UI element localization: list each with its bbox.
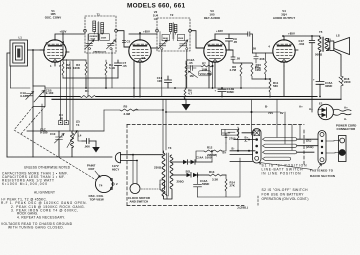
wire T2 to V3 grid xyxy=(191,31,204,48)
svg-text:+85V: +85V xyxy=(143,29,150,33)
resistor R1 xyxy=(80,96,96,98)
svg-text:T2: T2 xyxy=(170,13,174,17)
resistor R5 xyxy=(120,109,138,111)
svg-text:T4: T4 xyxy=(76,123,80,127)
T2 trimmer 1 xyxy=(158,40,167,49)
wires blades to strip B xyxy=(297,139,318,152)
wire det bus xyxy=(241,63,284,97)
svg-text:A+: A+ xyxy=(309,107,313,111)
svg-text:SEL.: SEL. xyxy=(186,170,193,174)
svg-text:DET-AUDIO: DET-AUDIO xyxy=(204,16,221,20)
svg-text:C5: C5 xyxy=(127,40,131,44)
tube V1 xyxy=(40,40,69,68)
antenna loop L1 xyxy=(10,36,28,67)
svg-text:3.3M: 3.3M xyxy=(124,112,131,116)
svg-text:IN LINE POSITION: IN LINE POSITION xyxy=(262,172,302,176)
dial T4 xyxy=(89,175,119,201)
alignment block xyxy=(1,190,87,229)
svg-text:VOLUME: VOLUME xyxy=(200,72,213,76)
svg-text:50MF: 50MF xyxy=(202,182,210,186)
wire osc vertical xyxy=(32,50,34,157)
resistor R6 xyxy=(184,88,192,99)
svg-text:K•1000 M•1,000,000: K•1000 M•1,000,000 xyxy=(2,182,47,186)
wire A- drop xyxy=(251,100,253,135)
svg-text:A-: A- xyxy=(344,117,347,121)
speaker LS xyxy=(328,34,350,77)
dashed clock section border left xyxy=(126,125,128,206)
dashed clock section border bottom xyxy=(127,205,244,207)
label V3 DET-AUDIO xyxy=(204,9,221,20)
connector strip A xyxy=(253,129,262,164)
wire screen bus xyxy=(63,33,118,88)
svg-text:R7: R7 xyxy=(202,62,206,66)
junction dots xyxy=(139,32,141,34)
svg-text:230Ω: 230Ω xyxy=(154,166,162,170)
svg-text:5.1K: 5.1K xyxy=(109,66,116,70)
svg-text:+85V: +85V xyxy=(288,32,295,36)
capacitor C17 xyxy=(299,36,315,46)
svg-text:C14A: C14A xyxy=(196,156,203,160)
resistor R17a xyxy=(237,127,239,151)
clock motor xyxy=(128,155,150,204)
capacitor C11 xyxy=(157,76,172,88)
tuning capacitor C1B xyxy=(33,86,54,134)
wire loop to V1 xyxy=(28,49,45,51)
svg-text:GREEN DOT: GREEN DOT xyxy=(93,52,107,54)
T1 label box GREEN xyxy=(89,34,99,41)
svg-text:+: + xyxy=(313,78,315,82)
capacitor C14 coupling xyxy=(248,32,253,53)
thermistor box xyxy=(222,129,239,135)
capacitor C8 xyxy=(78,131,96,149)
AC plug xyxy=(112,153,131,172)
transformer T3 xyxy=(154,146,184,199)
svg-text:TOP VIEW: TOP VIEW xyxy=(90,198,104,202)
ground clock xyxy=(222,133,236,143)
svg-text:.008: .008 xyxy=(259,57,265,61)
svg-text:2200: 2200 xyxy=(344,80,351,84)
svg-text:T3: T3 xyxy=(168,146,172,150)
T2 terminals xyxy=(156,29,159,32)
T1 secondary winding xyxy=(101,23,104,34)
svg-text:DOT: DOT xyxy=(89,167,95,171)
svg-text:FASTENED TO: FASTENED TO xyxy=(310,169,334,173)
svg-text:8V: 8V xyxy=(280,111,284,115)
svg-text:OPERATION (ON VOL CONT.): OPERATION (ON VOL CONT.) xyxy=(262,197,309,201)
diode CR1 xyxy=(172,156,213,165)
svg-text:CONNECTOR: CONNECTOR xyxy=(337,127,356,131)
svg-text:30MF: 30MF xyxy=(325,84,333,88)
T2 primary winding xyxy=(169,23,172,31)
T1 trimmer 1 xyxy=(85,40,94,49)
svg-text:FOR USE ON BATTERY: FOR USE ON BATTERY xyxy=(262,192,305,196)
svg-text:4.7M: 4.7M xyxy=(229,68,236,72)
capacitor C9 xyxy=(226,34,238,50)
svg-text:R13: R13 xyxy=(209,170,215,174)
T2 label box left xyxy=(162,35,169,41)
svg-text:L1: L1 xyxy=(19,36,23,40)
svg-text:E1: E1 xyxy=(319,102,323,106)
T1 primary winding xyxy=(93,21,96,32)
IF transformer T2 dashed box xyxy=(156,13,192,51)
svg-text:RADIO SECTION: RADIO SECTION xyxy=(310,174,335,178)
fastened arrows xyxy=(260,163,336,178)
wire bottom rail xyxy=(7,156,112,158)
verticals from above into switch xyxy=(277,99,300,150)
T1 core xyxy=(97,22,99,42)
resistor R8 xyxy=(229,63,242,88)
svg-text:10M: 10M xyxy=(202,67,208,71)
volume control R7A xyxy=(185,61,212,88)
svg-text:60CY: 60CY xyxy=(112,168,119,172)
wire plug top xyxy=(131,155,163,161)
label V1 OSC CONV xyxy=(45,9,61,20)
wire osc feed xyxy=(27,130,104,132)
capacitor C12A xyxy=(187,58,197,71)
svg-text:27K: 27K xyxy=(230,184,236,188)
resistor R11 xyxy=(269,79,279,97)
switch S3 clock xyxy=(141,180,167,199)
T1 internal wires xyxy=(88,32,112,54)
svg-text:1.5K: 1.5K xyxy=(255,66,262,70)
svg-text:250Ω: 250Ω xyxy=(177,180,185,184)
resistor R4 xyxy=(105,60,116,78)
IF transformer T1 dashed box xyxy=(84,12,118,53)
svg-text:1M: 1M xyxy=(190,74,195,78)
wire R5 line xyxy=(104,109,120,111)
svg-text:L4: L4 xyxy=(78,134,82,138)
svg-text:GREEN: GREEN xyxy=(90,36,98,38)
svg-text:260K: 260K xyxy=(163,38,169,40)
dashed clock section border top xyxy=(127,124,304,126)
resistor R13 xyxy=(209,170,226,182)
wire V4 plate to T5 xyxy=(283,36,320,40)
trimmer C10 xyxy=(50,131,64,157)
resistor R12 xyxy=(196,143,227,162)
svg-text:A+: A+ xyxy=(299,105,303,109)
T1 trimmer 2 xyxy=(107,40,116,49)
resistor R16 xyxy=(339,76,351,99)
diodes SEL xyxy=(172,170,209,178)
svg-text:4. REPEAT AS NECESSARY.: 4. REPEAT AS NECESSARY. xyxy=(17,215,65,219)
dial cord dashed xyxy=(14,107,96,181)
resistor R3 xyxy=(73,60,87,78)
svg-text:.05: .05 xyxy=(123,64,127,68)
svg-text:MODELS 660, 661: MODELS 660, 661 xyxy=(127,3,185,10)
S2 note xyxy=(262,188,309,201)
svg-text:A-: A- xyxy=(245,139,248,143)
wires into strip A xyxy=(230,133,255,162)
capacitor C7 xyxy=(115,60,127,78)
T2 trimmer 2 xyxy=(179,40,188,49)
svg-text:+18V: +18V xyxy=(216,29,223,33)
svg-text:9-180: 9-180 xyxy=(20,94,28,98)
svg-text:R12: R12 xyxy=(207,146,213,150)
S1 note xyxy=(262,164,308,176)
wavy leads xyxy=(334,109,352,111)
svg-text:.05: .05 xyxy=(236,57,240,61)
T1 terminals xyxy=(84,29,87,32)
svg-text:C6: C6 xyxy=(142,56,146,60)
T2 secondary winding xyxy=(174,24,177,32)
svg-text:.05: .05 xyxy=(189,61,193,65)
svg-text:20K: 20K xyxy=(66,66,72,70)
T2 internal wires xyxy=(160,32,187,49)
svg-text:T4: T4 xyxy=(99,184,103,188)
label V4 AUDIO OUTPUT xyxy=(273,9,295,20)
capacitor C14A xyxy=(194,174,210,197)
svg-text:+: + xyxy=(215,89,217,93)
svg-text:AUDIO OUTPUT: AUDIO OUTPUT xyxy=(273,16,295,20)
tube V4 xyxy=(253,40,299,66)
svg-text:R1: R1 xyxy=(85,89,89,93)
ground chassis xyxy=(182,99,191,110)
svg-text:4.7: 4.7 xyxy=(188,92,192,96)
svg-text:R5: R5 xyxy=(124,105,128,109)
svg-text:.05: .05 xyxy=(233,40,237,44)
capacitor C13B xyxy=(215,87,235,97)
T2 label box right xyxy=(177,35,184,41)
svg-text:500Ω: 500Ω xyxy=(315,53,323,57)
AVC bus xyxy=(11,87,271,89)
capacitor C12B xyxy=(226,50,241,63)
wire T1 to bus xyxy=(88,53,112,97)
wire V3 plate load xyxy=(215,33,248,35)
svg-text:A+: A+ xyxy=(344,106,348,110)
power cord connector xyxy=(326,136,346,162)
output transformer T5 xyxy=(315,30,330,81)
svg-text:.006: .006 xyxy=(84,145,90,149)
osc coil T4 xyxy=(67,131,82,158)
svg-text:3.3K: 3.3K xyxy=(212,178,219,182)
svg-text:250K: 250K xyxy=(178,38,184,40)
svg-text:70V: 70V xyxy=(268,111,273,115)
svg-text:B-: B- xyxy=(265,105,268,109)
svg-text:.05: .05 xyxy=(252,47,256,51)
svg-text:J.(2/BL): J.(2/BL) xyxy=(237,206,248,210)
tube V2 xyxy=(122,40,158,97)
svg-text:AND SWITCH: AND SWITCH xyxy=(130,200,149,204)
tuning capacitor C1A xyxy=(20,91,33,99)
connector strip B xyxy=(318,131,326,165)
svg-text:100: 100 xyxy=(157,79,162,83)
junction dots on B- bus xyxy=(133,96,135,98)
dashed clock section border right xyxy=(303,130,305,165)
ground osc xyxy=(92,141,100,153)
T1 label box 260K xyxy=(100,34,110,41)
svg-text:.05: .05 xyxy=(59,116,63,120)
paint dot label xyxy=(87,164,100,178)
capacitor C15A filter xyxy=(313,78,333,97)
tube V3 xyxy=(196,34,231,88)
wire V1 plate to T1 xyxy=(55,34,85,40)
resistor R2 xyxy=(62,60,72,78)
resistor R7 xyxy=(201,62,214,89)
B- bus thick pair xyxy=(40,96,80,98)
svg-text:.002: .002 xyxy=(299,42,305,46)
wire V1 bottom drops xyxy=(61,60,73,132)
wire T1 to V2 grid xyxy=(117,31,129,47)
svg-text:LS: LS xyxy=(336,34,340,38)
label V2 IF xyxy=(153,10,159,21)
svg-text:9-180: 9-180 xyxy=(46,91,54,95)
svg-text:WITH TUNING GANG CLOSED.: WITH TUNING GANG CLOSED. xyxy=(8,226,64,230)
svg-text:50: 50 xyxy=(328,38,332,42)
capacitor C16 xyxy=(254,53,258,63)
wire V2 plate to T2 xyxy=(129,34,157,40)
svg-text:260K: 260K xyxy=(101,37,107,39)
wire T2 to bus xyxy=(162,50,187,97)
wire left rail xyxy=(7,53,10,157)
resistor R10 xyxy=(255,53,267,79)
svg-text:ALIGNMENT: ALIGNMENT xyxy=(34,190,55,194)
notes block xyxy=(2,165,71,186)
svg-text:OSC. CONV: OSC. CONV xyxy=(45,16,61,20)
svg-text:UNLESS OTHERWISE NOTED: UNLESS OTHERWISE NOTED xyxy=(24,165,71,169)
T2 core xyxy=(172,23,174,41)
svg-text:T5: T5 xyxy=(319,30,323,34)
svg-text:560: 560 xyxy=(273,84,278,88)
switch S1 blades xyxy=(263,138,297,161)
switch C4 squares xyxy=(59,113,80,127)
svg-text:30MF: 30MF xyxy=(227,90,235,94)
rectifier E1 xyxy=(318,102,333,120)
resistor R9 xyxy=(251,63,261,79)
wire mid lower xyxy=(166,111,280,113)
wire B+ riser xyxy=(311,43,313,112)
svg-text:C10: C10 xyxy=(50,132,56,136)
resistor R15 xyxy=(198,158,241,197)
svg-text:B-: B- xyxy=(232,147,235,151)
svg-text:100K: 100K xyxy=(73,66,81,70)
